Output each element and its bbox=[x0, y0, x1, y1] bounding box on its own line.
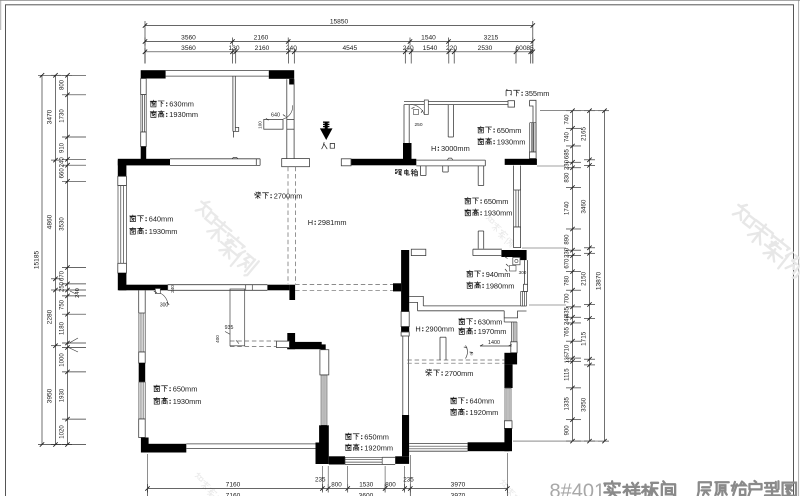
svg-text:230: 230 bbox=[565, 159, 571, 170]
svg-text:13870: 13870 bbox=[596, 272, 603, 291]
band tick bbox=[245, 285, 247, 291]
svg-text:1930mm: 1930mm bbox=[149, 227, 178, 236]
wall black kitchen left lower bbox=[403, 143, 412, 164]
wall right black wide segment bbox=[504, 353, 517, 365]
sill band south of kitchen bbox=[416, 159, 485, 161]
right dimension chain: minors bbox=[572, 111, 574, 441]
window sill box bbox=[139, 352, 146, 363]
svg-text:15850: 15850 bbox=[330, 19, 349, 26]
wall block living/dining junction bottom bbox=[316, 443, 329, 465]
svg-text:240: 240 bbox=[286, 45, 297, 52]
left chain tiny dims 135/50 leaders bbox=[68, 338, 79, 344]
wall black step bbox=[518, 257, 527, 260]
svg-text:3470: 3470 bbox=[47, 109, 54, 124]
window sill box upper-left wall bbox=[141, 79, 147, 95]
svg-text:3560: 3560 bbox=[181, 45, 196, 52]
wall pier top corner of entry bbox=[269, 70, 294, 79]
left dimension chain: majors bbox=[55, 75, 57, 444]
svg-text:750: 750 bbox=[60, 299, 66, 310]
beam dashed vertical pair (entry) bbox=[287, 167, 289, 284]
wall pier mid-left room bottom bbox=[118, 273, 127, 290]
svg-text:740: 740 bbox=[565, 114, 571, 125]
sill box below window bbox=[511, 342, 517, 353]
svg-text:2530: 2530 bbox=[478, 45, 493, 52]
svg-text:300: 300 bbox=[519, 270, 527, 275]
window sill box bbox=[118, 176, 127, 185]
svg-text:3460: 3460 bbox=[581, 199, 588, 214]
top wall band (bay window sill) of top-left bedroom bbox=[166, 69, 269, 71]
svg-text:300: 300 bbox=[160, 303, 169, 309]
svg-text:2700mm: 2700mm bbox=[274, 191, 303, 200]
window right exterior top bbox=[530, 123, 536, 152]
window right wall mid-right room bbox=[514, 190, 521, 227]
wall L vertical center bbox=[287, 333, 295, 349]
svg-text:1540: 1540 bbox=[423, 45, 438, 52]
svg-text:780: 780 bbox=[565, 275, 571, 286]
kitchen door leaf + swing bbox=[424, 100, 428, 115]
wall pier top-left corner bbox=[141, 70, 166, 78]
right dimension chain: majors bbox=[589, 111, 591, 441]
label living height 1930 bbox=[154, 397, 160, 404]
label 940 room height bbox=[467, 282, 473, 289]
svg-text:890: 890 bbox=[565, 234, 571, 245]
top dimension chain row 3 bbox=[145, 51, 533, 53]
label mid-left sill 640 bbox=[130, 215, 136, 222]
left stub wall bottom bbox=[477, 231, 479, 249]
watermark small center-right bbox=[486, 214, 496, 224]
svg-text:240: 240 bbox=[170, 285, 175, 293]
svg-text:H: H bbox=[431, 144, 436, 153]
svg-text:1180: 1180 bbox=[60, 321, 66, 335]
svg-text:4545: 4545 bbox=[342, 45, 357, 52]
label door under 355 bbox=[506, 89, 511, 96]
left wall living room upper white bbox=[138, 290, 140, 313]
label mid-right sill 650 bbox=[465, 197, 471, 204]
door swing arc bbox=[283, 105, 292, 119]
bottom extension lines from walls bbox=[147, 454, 149, 491]
bay bottom step right bbox=[504, 311, 526, 318]
svg-text:640: 640 bbox=[271, 113, 280, 119]
wall y285 black right segment bbox=[267, 285, 289, 291]
jamb box bbox=[401, 332, 409, 336]
interior wall y160 white band bbox=[170, 158, 260, 160]
svg-text:650mm: 650mm bbox=[173, 384, 198, 393]
wall bump detail bbox=[232, 157, 238, 158]
beam dashed horizontal pair (living) bbox=[230, 340, 277, 342]
svg-text:1740: 1740 bbox=[565, 201, 571, 215]
svg-text:400: 400 bbox=[215, 335, 220, 343]
window sill box bbox=[139, 419, 146, 438]
svg-text:710: 710 bbox=[565, 344, 571, 355]
label bedroom1 height 1930 bbox=[150, 111, 156, 118]
svg-text:1920mm: 1920mm bbox=[364, 443, 393, 452]
svg-text:900: 900 bbox=[565, 425, 571, 436]
bottom wall white segment bbox=[382, 456, 395, 458]
sill box below window bbox=[514, 227, 521, 248]
svg-text:2700mm: 2700mm bbox=[445, 369, 474, 378]
svg-text:240: 240 bbox=[403, 45, 414, 52]
wardrobe/door panel rect 935 bbox=[230, 289, 245, 346]
kitchen left wall bbox=[403, 105, 405, 143]
left stub wall top bbox=[477, 166, 479, 186]
jamb box left of L wall bbox=[277, 341, 290, 348]
wall black column left of 940 room bbox=[401, 250, 409, 312]
wall L horizontal center bbox=[287, 342, 321, 349]
wall right black upper bottom-right room bbox=[504, 364, 512, 388]
svg-text:2150: 2150 bbox=[581, 271, 588, 286]
label beam 2700 bedroom bbox=[426, 369, 432, 376]
T flange wall end entry bbox=[282, 159, 310, 167]
label 630 room height bbox=[459, 328, 465, 335]
wall black right exterior bbox=[530, 159, 537, 165]
window small right bay bbox=[521, 291, 527, 306]
svg-text:230: 230 bbox=[565, 247, 571, 258]
sheet outer right edge bbox=[798, 0, 800, 496]
bottom dimension chain row B (cut off) bbox=[147, 489, 149, 496]
svg-text:2900mm: 2900mm bbox=[425, 325, 454, 334]
svg-text:355mm: 355mm bbox=[525, 89, 550, 98]
1400 dimension bbox=[480, 345, 512, 347]
jamb box west of entry wall bbox=[341, 159, 351, 166]
label mid-bottom height 1920 bbox=[345, 444, 351, 451]
svg-text:130: 130 bbox=[228, 45, 239, 52]
svg-text:650mm: 650mm bbox=[484, 197, 509, 206]
svg-text:630mm: 630mm bbox=[169, 100, 194, 109]
wall interior y160 black left segment bbox=[118, 159, 170, 166]
svg-text:1000: 1000 bbox=[60, 353, 66, 367]
wall L step bbox=[321, 344, 326, 352]
svg-text:7160: 7160 bbox=[226, 493, 241, 496]
svg-text:640mm: 640mm bbox=[470, 397, 495, 406]
svg-text:3560: 3560 bbox=[181, 35, 196, 42]
wall pier mid-left room top bbox=[118, 160, 127, 176]
svg-text:15185: 15185 bbox=[34, 251, 41, 270]
wall leg below y285 bbox=[289, 285, 295, 300]
svg-text:3950: 3950 bbox=[47, 388, 54, 403]
svg-text:2160: 2160 bbox=[255, 45, 270, 52]
sheet outer top edge bbox=[0, 0, 800, 2]
window left wall top-left bedroom bbox=[141, 95, 146, 132]
svg-text:600: 600 bbox=[515, 45, 526, 52]
top dimension chain row 1 (15850) bbox=[145, 25, 533, 27]
svg-text:7160: 7160 bbox=[226, 482, 241, 489]
svg-text:3970: 3970 bbox=[451, 493, 466, 496]
wall black small below box bbox=[401, 327, 409, 332]
label beam 2700 hall bbox=[255, 192, 261, 199]
wall bottom black right segment bbox=[395, 456, 409, 464]
kitchen partition x448 bbox=[447, 105, 449, 137]
svg-text:1530: 1530 bbox=[359, 482, 374, 489]
svg-text:1970mm: 1970mm bbox=[478, 327, 507, 336]
svg-text:685: 685 bbox=[565, 148, 571, 159]
svg-text:935: 935 bbox=[225, 325, 234, 331]
svg-text:800: 800 bbox=[385, 482, 396, 489]
wall y285 black left segment bbox=[119, 285, 168, 291]
label bottom-right sill 640 bbox=[450, 397, 456, 404]
svg-text:1980mm: 1980mm bbox=[486, 281, 515, 290]
door opening 640 jambs in right wall bbox=[287, 118, 294, 120]
door swing mid-left room bbox=[155, 289, 160, 294]
wall corner bottom-left vertical bbox=[141, 438, 149, 453]
svg-text:3215: 3215 bbox=[484, 35, 499, 42]
svg-text:2280: 2280 bbox=[47, 309, 54, 324]
label bottom-right height 1920 bbox=[450, 408, 456, 415]
svg-text:1930mm: 1930mm bbox=[497, 137, 526, 146]
bottom wall window band bottom-right room bbox=[409, 443, 468, 445]
door jamb bbox=[255, 159, 257, 166]
svg-text:1930mm: 1930mm bbox=[169, 110, 198, 119]
right wall of top-left bedroom (double line) bbox=[286, 79, 288, 159]
wall pier left wall junction bbox=[141, 147, 147, 161]
watermark large bottom-right bbox=[732, 201, 800, 280]
label kitchen-right height 1930 bbox=[478, 138, 484, 145]
svg-text:2160: 2160 bbox=[254, 35, 269, 42]
svg-text:135: 135 bbox=[565, 354, 571, 363]
right wall 940 room bbox=[524, 260, 526, 284]
svg-text:660: 660 bbox=[60, 168, 66, 179]
svg-text:1930: 1930 bbox=[60, 388, 66, 402]
wall black stub left of column bbox=[393, 283, 401, 291]
sill box bbox=[524, 284, 528, 291]
window sill box below bbox=[141, 132, 147, 147]
watermark small bottom-center bbox=[500, 479, 510, 489]
svg-text:1930mm: 1930mm bbox=[173, 397, 202, 406]
svg-text:1020: 1020 bbox=[60, 425, 66, 439]
svg-text:1400: 1400 bbox=[488, 340, 500, 346]
label living sill 650 bbox=[154, 385, 160, 392]
label 940 room sill bbox=[467, 270, 473, 277]
svg-text:1930mm: 1930mm bbox=[484, 209, 513, 218]
wall divider black lower part bbox=[402, 415, 409, 456]
svg-text:H: H bbox=[308, 218, 313, 227]
entrance arrow bbox=[320, 122, 333, 141]
svg-text:1335: 1335 bbox=[565, 396, 571, 410]
left dimension chain: minors bbox=[67, 75, 69, 444]
top dimension chain row 2 bbox=[145, 41, 533, 43]
sheet outer left edge stub bbox=[0, 0, 2, 30]
window right wall bottom-right room bbox=[505, 388, 511, 421]
svg-text:1540: 1540 bbox=[421, 35, 436, 42]
svg-text:100: 100 bbox=[258, 121, 263, 129]
right chain extension lines bbox=[540, 110, 598, 112]
jamb box below column bbox=[401, 312, 409, 327]
svg-text:650mm: 650mm bbox=[364, 432, 389, 441]
label mid-left height 1930 bbox=[130, 227, 136, 234]
sill box left wall mid-bottom room bbox=[320, 350, 329, 375]
svg-text:220: 220 bbox=[446, 45, 457, 52]
stubs below sill band bbox=[420, 166, 422, 176]
svg-text:3350: 3350 bbox=[581, 397, 588, 412]
sill box bbox=[530, 152, 537, 159]
wall pier below corner bbox=[289, 79, 294, 85]
watermark large mid-left room bbox=[195, 198, 222, 224]
label bedroom1 sill 630 bbox=[150, 100, 156, 107]
svg-text:1920mm: 1920mm bbox=[470, 408, 499, 417]
label electric box bbox=[395, 170, 401, 176]
living room bottom wall double lines bbox=[186, 443, 315, 445]
label kitchen-right sill 650 bbox=[478, 126, 484, 133]
svg-text:240: 240 bbox=[75, 288, 81, 298]
svg-text:800: 800 bbox=[60, 79, 66, 90]
svg-text:3530: 3530 bbox=[60, 217, 66, 231]
label mid-right height 1930 bbox=[465, 209, 471, 216]
svg-text:765: 765 bbox=[565, 326, 571, 337]
svg-text:250: 250 bbox=[414, 122, 422, 128]
window bottom mid-bottom room bbox=[345, 457, 382, 464]
wall y285 white band (opening w/ sill) bbox=[168, 284, 268, 286]
label entrance bbox=[322, 142, 327, 148]
svg-text:910: 910 bbox=[60, 142, 66, 153]
bottom dimension chain row A bbox=[148, 488, 508, 490]
label mid-bottom sill 650 bbox=[345, 433, 351, 440]
stub wall x440 bbox=[439, 337, 441, 360]
svg-text:1715: 1715 bbox=[581, 331, 588, 346]
sill box bbox=[504, 421, 512, 429]
svg-text:2981mm: 2981mm bbox=[318, 218, 347, 227]
watermark small bottom-left bbox=[195, 472, 205, 482]
window right wall 630/1970 room bbox=[504, 318, 517, 342]
wall black left mid-bottom room bbox=[319, 425, 329, 464]
right wall plain segment above window bbox=[513, 166, 515, 191]
beam dashed pair (bedroom top) bbox=[407, 359, 504, 361]
wall right black lower corner bbox=[504, 428, 512, 451]
window left wall mid-left room bbox=[118, 186, 126, 264]
jamb box right of column bbox=[411, 249, 426, 255]
window 650/1930 living room left wall bbox=[139, 382, 145, 419]
divider wall white double bbox=[402, 336, 404, 415]
svg-text:240: 240 bbox=[60, 157, 66, 168]
partition wall x233 bbox=[232, 76, 234, 131]
svg-text:670: 670 bbox=[60, 270, 66, 281]
svg-text:830: 830 bbox=[565, 172, 571, 183]
svg-text:3600: 3600 bbox=[359, 493, 374, 496]
wall pier between windows bbox=[139, 363, 146, 382]
svg-text:3000mm: 3000mm bbox=[441, 144, 470, 153]
svg-text:3970: 3970 bbox=[451, 482, 466, 489]
left dimension chain: overall 15185 bbox=[41, 75, 43, 444]
svg-text:800: 800 bbox=[331, 482, 342, 489]
label 630 room sill bbox=[459, 318, 465, 325]
wall jamb box bbox=[508, 101, 515, 107]
wall pier top-left corner tab bbox=[141, 79, 147, 82]
wall bottom black left segment bbox=[329, 456, 345, 464]
right exterior wall top-right with notch bbox=[530, 100, 536, 152]
svg-text:650mm: 650mm bbox=[497, 126, 522, 135]
svg-text:630mm: 630mm bbox=[478, 317, 503, 326]
svg-text:235: 235 bbox=[315, 477, 326, 484]
svg-text:2165: 2165 bbox=[581, 127, 588, 142]
svg-text:85: 85 bbox=[526, 45, 534, 52]
svg-text:940mm: 940mm bbox=[486, 270, 511, 279]
svg-text:H: H bbox=[415, 325, 420, 334]
wall black entry south bbox=[351, 159, 416, 166]
right dimension chain: overall 13870 bbox=[604, 111, 606, 441]
svg-text:670: 670 bbox=[565, 258, 571, 269]
wall bottom black right corner bbox=[468, 442, 510, 451]
wall black top of 940 room bbox=[501, 250, 526, 257]
svg-text:8#401: 8#401 bbox=[550, 481, 606, 496]
svg-text:640mm: 640mm bbox=[149, 214, 174, 223]
svg-text:700: 700 bbox=[565, 293, 571, 304]
partition door jamb detail bbox=[233, 127, 239, 131]
window left wall mid-bottom room bbox=[321, 375, 327, 425]
window 640/1975 living room left wall bbox=[139, 313, 145, 352]
door swing marks near 1400 bbox=[464, 346, 473, 359]
wall black bottom right of kitchen bbox=[505, 159, 537, 165]
svg-text:1115: 1115 bbox=[565, 368, 571, 381]
band tick bbox=[251, 285, 253, 291]
wall corner bottom-left horizontal bbox=[141, 444, 186, 453]
svg-text:4860: 4860 bbox=[47, 214, 54, 229]
window sill box bbox=[118, 263, 127, 273]
door leaf 640 of top-left bedroom bbox=[264, 119, 283, 129]
svg-text:250: 250 bbox=[60, 281, 66, 292]
940 room bottom wall bbox=[409, 296, 423, 310]
beam dashed horizontal pair (hall) bbox=[295, 284, 393, 286]
svg-text:1730: 1730 bbox=[60, 109, 66, 123]
svg-text:740: 740 bbox=[565, 131, 571, 142]
svg-text:240: 240 bbox=[565, 314, 571, 325]
door swing at 940 room bbox=[513, 257, 520, 264]
kitchen top wall double bbox=[404, 100, 515, 102]
